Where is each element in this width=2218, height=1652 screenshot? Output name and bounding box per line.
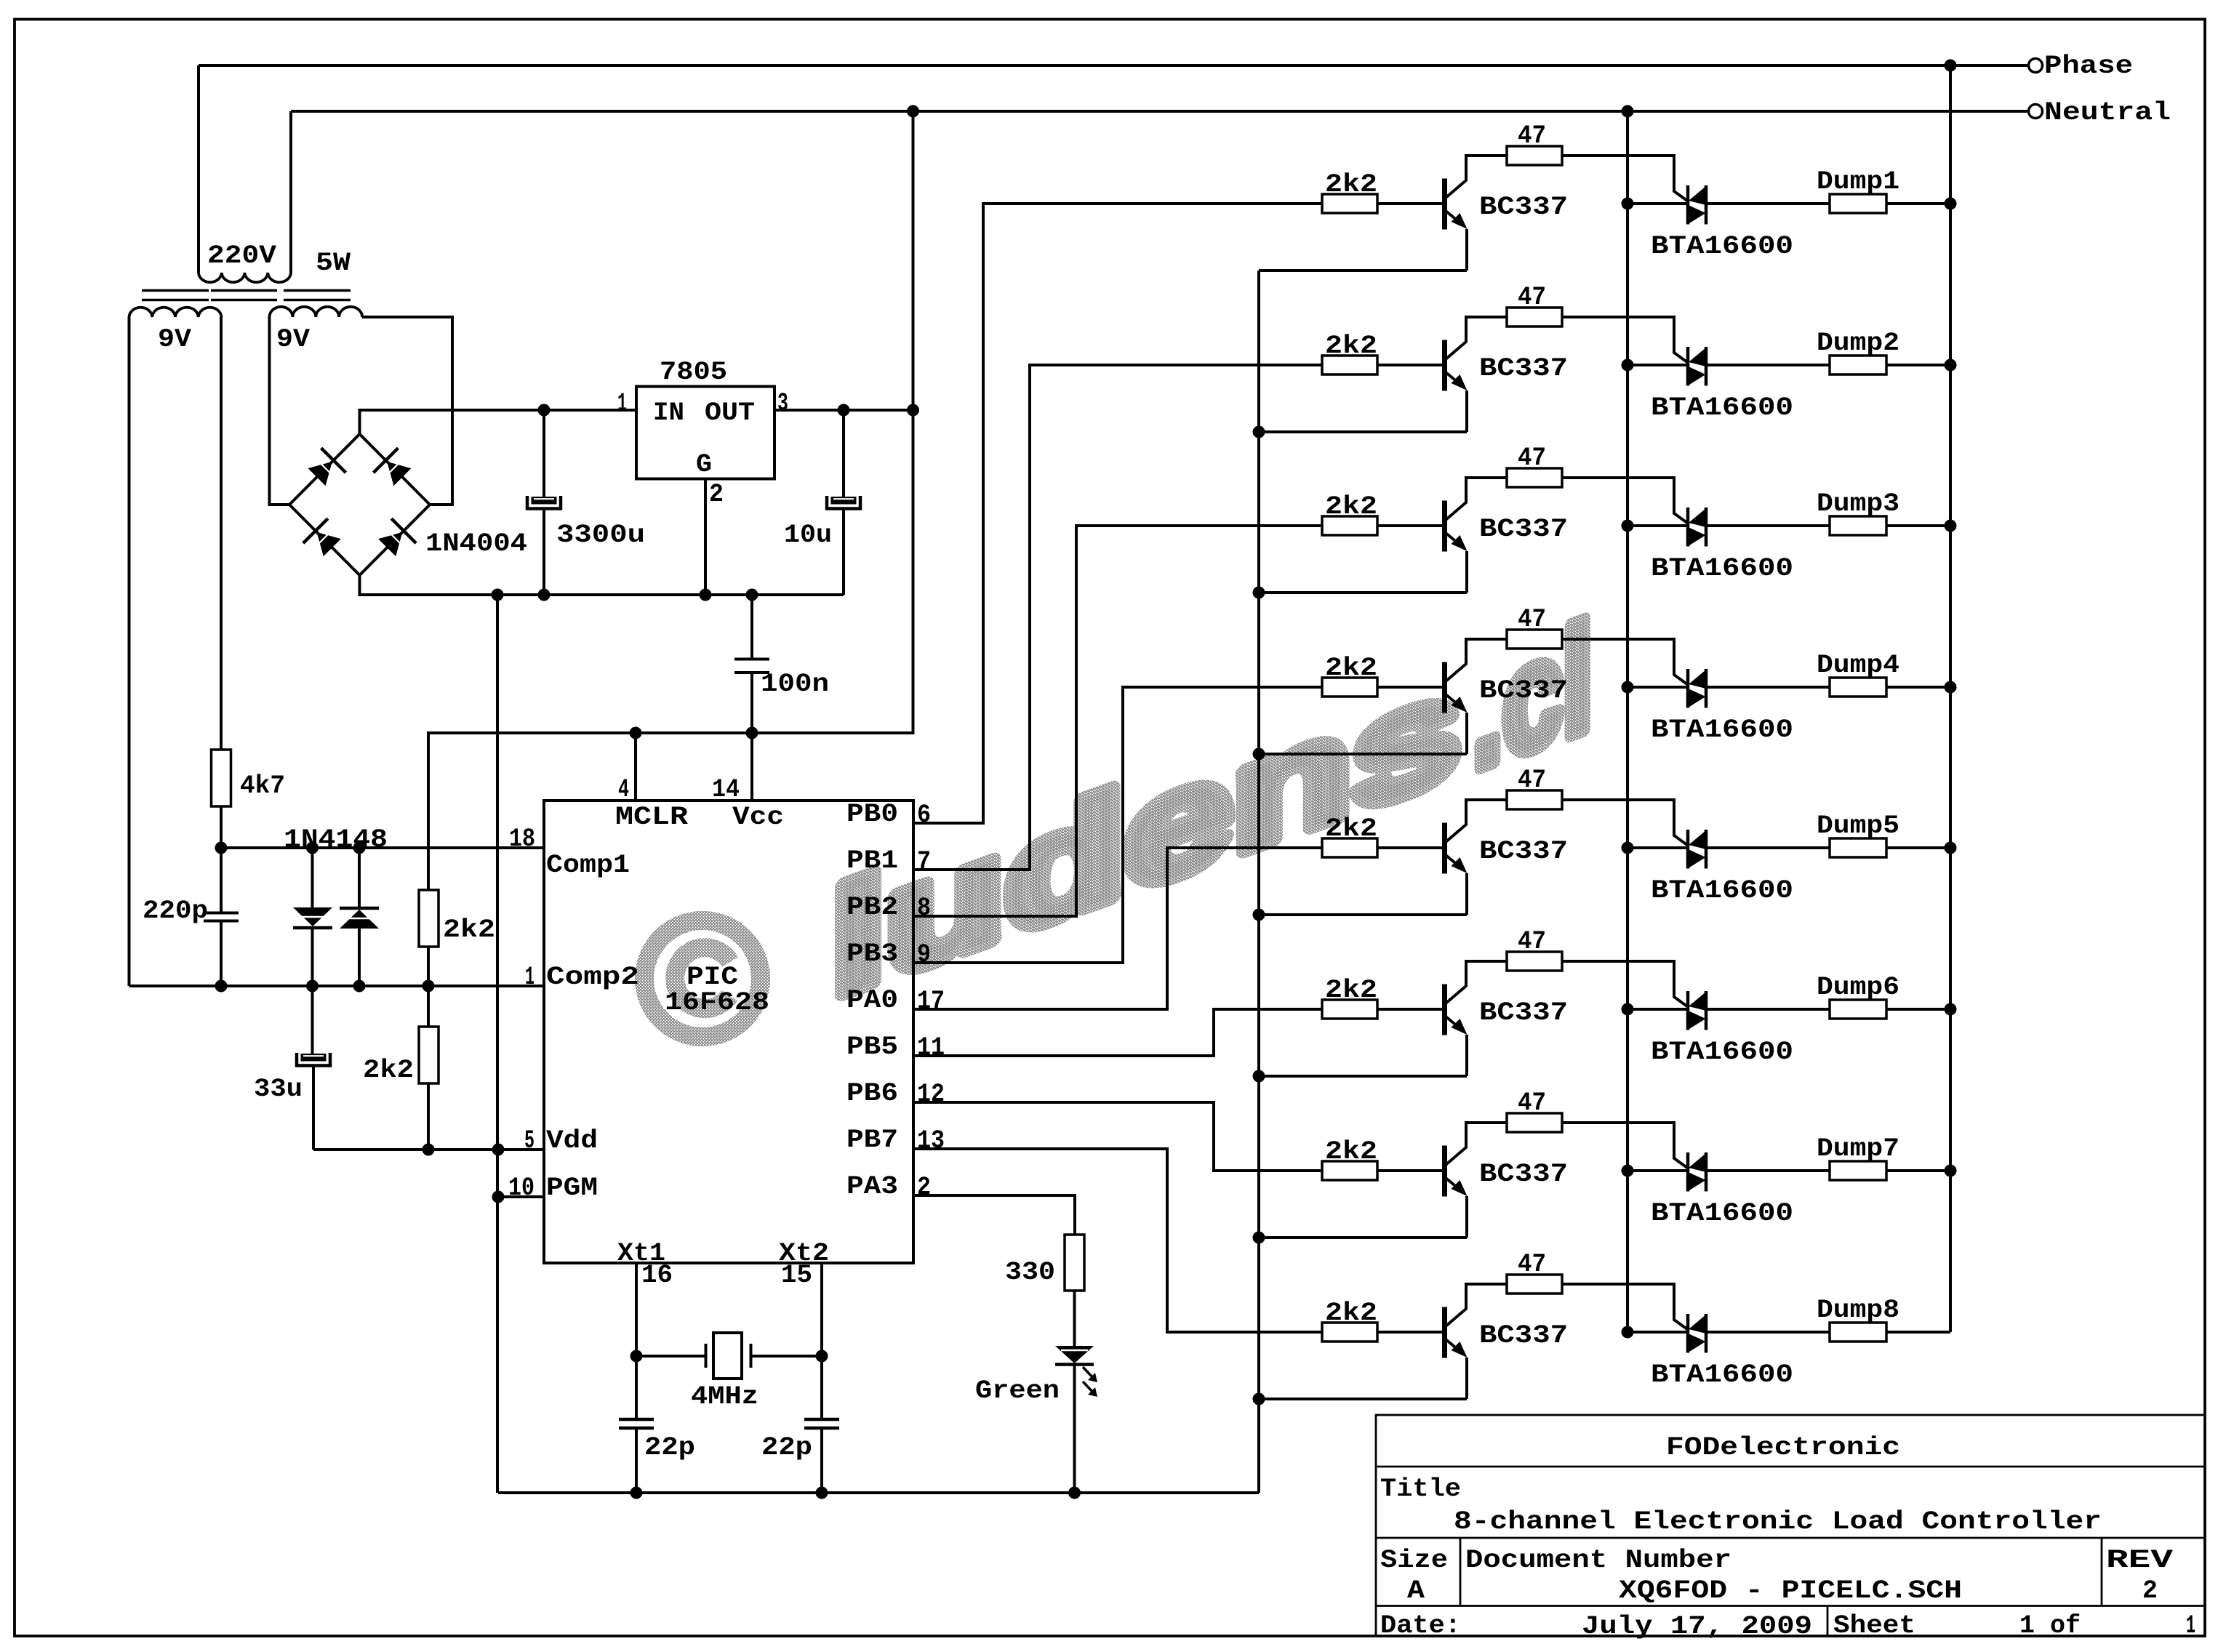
transistor Q1 BC337 — [1442, 179, 1447, 230]
resistor Dump7 ch7 — [1706, 1169, 1830, 1172]
resistor 47 ch3 — [1507, 468, 1562, 487]
triac TR5 BTA16600 — [1628, 846, 1688, 849]
diode 1N4148 right — [358, 848, 361, 908]
transistor Q6 BC337 — [1442, 985, 1447, 1035]
svg-text:2k2: 2k2 — [1325, 170, 1377, 199]
capacitor 33u — [311, 986, 314, 1054]
resistor 47 ch8 — [1507, 1275, 1562, 1294]
svg-text:47: 47 — [1518, 1250, 1546, 1279]
svg-text:14: 14 — [712, 775, 740, 804]
wire PB6 to channel 7 — [913, 1102, 1322, 1171]
triac TR6 BTA16600 — [1628, 1008, 1688, 1011]
resistor 2k2 ch6 — [1322, 1000, 1377, 1019]
wire emitter ground bus — [1257, 270, 1260, 1493]
svg-text:PB7: PB7 — [846, 1126, 898, 1155]
wire left 9V left terminal down to Comp2 line — [128, 317, 131, 986]
svg-text:PB5: PB5 — [846, 1032, 898, 1062]
svg-text:47: 47 — [1518, 766, 1546, 795]
wire gate ch7 — [1562, 1123, 1687, 1168]
resistor 2k2 ch4 — [1322, 678, 1377, 697]
transistor Q7 BC337 — [1442, 1146, 1447, 1197]
resistor 47 ch7 — [1507, 1113, 1562, 1132]
svg-text:XQ6FOD - PICELC.SCH: XQ6FOD - PICELC.SCH — [1619, 1576, 1962, 1605]
svg-text:PA3: PA3 — [846, 1172, 898, 1201]
wire PA0 to channel 5 — [913, 848, 1322, 1009]
wire gate ch4 — [1562, 639, 1687, 684]
svg-text:Sheet: Sheet — [1833, 1611, 1915, 1640]
wire gate ch6 — [1562, 961, 1687, 1006]
wire Xt1 pin16 riser — [635, 1263, 638, 1419]
resistor Dump8 ch8 — [1706, 1331, 1830, 1334]
wire 7805 OUT — [774, 409, 913, 412]
resistor Dump2 ch2 — [1706, 364, 1830, 366]
triac TR4 BTA16600 — [1628, 686, 1688, 689]
capacitor 22p right — [804, 1418, 839, 1422]
svg-text:BTA16600: BTA16600 — [1651, 554, 1793, 583]
svg-text:9V: 9V — [276, 325, 310, 354]
svg-text:OUT: OUT — [705, 398, 755, 428]
svg-text:3: 3 — [777, 389, 788, 418]
wire PB1 to channel 2 — [913, 365, 1322, 870]
svg-text:PB6: PB6 — [846, 1079, 898, 1108]
capacitor 220p — [220, 848, 223, 913]
resistor 330 — [1065, 1235, 1084, 1291]
wire Xt2 pin15 riser — [820, 1263, 823, 1419]
svg-text:FODelectronic: FODelectronic — [1666, 1433, 1900, 1462]
wire PB5 to channel 6 — [913, 1009, 1322, 1056]
wire PB3 to channel 4 — [913, 687, 1322, 963]
svg-text:PB2: PB2 — [846, 893, 898, 922]
wire PB0 to channel 1 — [913, 204, 1322, 823]
svg-text:33u: 33u — [254, 1075, 303, 1104]
svg-text:Neutral: Neutral — [2044, 98, 2171, 127]
resistor 2k2 lower — [427, 986, 430, 1027]
resistor 47 ch2 — [1507, 308, 1562, 326]
svg-text:47: 47 — [1518, 1088, 1546, 1118]
transformer secondary 9V right — [270, 307, 363, 317]
svg-text:BC337: BC337 — [1479, 676, 1568, 705]
svg-text:8-channel Electronic Load Cont: 8-channel Electronic Load Controller — [1454, 1507, 2102, 1536]
svg-text:2k2: 2k2 — [1325, 814, 1377, 843]
crystal 4MHz — [636, 1355, 706, 1358]
triac TR3 BTA16600 — [1628, 524, 1688, 527]
resistor Dump4 ch4 — [1706, 686, 1830, 689]
resistor 47 ch1 — [1507, 146, 1562, 165]
svg-text:16F628: 16F628 — [665, 988, 769, 1017]
svg-text:330: 330 — [1005, 1258, 1055, 1287]
svg-text:2k2: 2k2 — [1325, 1299, 1377, 1328]
svg-text:7: 7 — [917, 847, 931, 876]
svg-text:July 17, 2009: July 17, 2009 — [1582, 1612, 1812, 1641]
diode 1N4148 left — [311, 848, 314, 907]
svg-text:7805: 7805 — [660, 358, 727, 387]
node Neutral terminal — [291, 110, 2028, 113]
svg-text:18: 18 — [509, 825, 535, 854]
svg-text:IN: IN — [653, 398, 684, 428]
svg-text:Date:: Date: — [1380, 1611, 1461, 1640]
resistor 47 ch4 — [1507, 630, 1562, 649]
regulator 7805 — [636, 387, 774, 479]
svg-text:BTA16600: BTA16600 — [1651, 232, 1793, 261]
LED Green — [1055, 1346, 1094, 1363]
wire Vdd pin5 — [313, 1148, 544, 1151]
svg-text:PB1: PB1 — [846, 846, 898, 875]
svg-text:22p: 22p — [761, 1433, 812, 1462]
svg-text:9: 9 — [917, 940, 931, 969]
wire right 9V right terminal to bridge right corner — [362, 317, 452, 505]
svg-text:Dump3: Dump3 — [1817, 489, 1899, 518]
resistor Dump6 ch6 — [1706, 1008, 1830, 1011]
svg-text:REV: REV — [2106, 1546, 2173, 1575]
svg-text:2: 2 — [2142, 1576, 2158, 1605]
svg-text:220p: 220p — [143, 897, 208, 926]
wire DC ground to PGM and bottom rail — [496, 595, 499, 1493]
svg-text:15: 15 — [781, 1261, 812, 1290]
svg-text:PA0: PA0 — [846, 986, 898, 1015]
svg-text:Dump8: Dump8 — [1817, 1296, 1899, 1325]
svg-text:BC337: BC337 — [1479, 193, 1568, 222]
svg-text:13: 13 — [917, 1126, 945, 1155]
svg-text:Size: Size — [1380, 1546, 1448, 1575]
svg-text:2k2: 2k2 — [1325, 976, 1377, 1005]
transistor Q3 BC337 — [1442, 501, 1447, 552]
svg-text:17: 17 — [917, 987, 945, 1016]
svg-text:22p: 22p — [644, 1433, 695, 1462]
wire bridge DC+ to 7805 IN — [360, 410, 637, 434]
triac TR8 BTA16600 — [1628, 1331, 1688, 1334]
resistor 2k2 ch5 — [1322, 838, 1377, 857]
svg-text:1: 1 — [617, 389, 627, 418]
transformer secondary 9V left — [129, 308, 222, 317]
wire triac A2 rail — [1626, 111, 1629, 1332]
svg-text:Title: Title — [1380, 1475, 1461, 1504]
svg-text:10u: 10u — [784, 521, 832, 550]
svg-text:9V: 9V — [158, 325, 191, 354]
svg-text:PGM: PGM — [546, 1174, 598, 1203]
svg-text:1: 1 — [2186, 1611, 2195, 1640]
wire gate ch3 — [1562, 478, 1687, 523]
svg-text:2k2: 2k2 — [1325, 332, 1377, 361]
resistor 2k2 ch1 — [1322, 194, 1377, 213]
svg-text:PB3: PB3 — [846, 939, 898, 969]
svg-text:220V: 220V — [207, 241, 276, 270]
transistor Q8 BC337 — [1442, 1307, 1447, 1358]
wire left 9V right terminal down to 4k7 — [220, 317, 223, 750]
svg-text:1N4148: 1N4148 — [284, 825, 388, 854]
node Phase terminal — [199, 64, 2028, 67]
svg-text:Green: Green — [975, 1376, 1060, 1406]
transistor Q4 BC337 — [1442, 662, 1447, 713]
capacitor 3300u — [543, 410, 545, 497]
wire Comp2 pin1 — [129, 985, 545, 987]
wire PB7 to channel 8 — [913, 1149, 1322, 1332]
wire gate ch8 — [1562, 1284, 1687, 1329]
svg-text:47: 47 — [1518, 927, 1546, 956]
wire Neutral to +5 rail riser — [428, 111, 913, 890]
svg-text:Dump2: Dump2 — [1817, 329, 1899, 358]
svg-text:11: 11 — [917, 1033, 945, 1062]
svg-text:A: A — [1407, 1576, 1425, 1605]
svg-text:47: 47 — [1518, 605, 1546, 634]
svg-text:10: 10 — [508, 1174, 535, 1203]
svg-text:PIC: PIC — [686, 963, 738, 992]
svg-text:Comp1: Comp1 — [546, 851, 630, 880]
svg-text:6: 6 — [917, 801, 931, 830]
svg-text:BTA16600: BTA16600 — [1651, 1360, 1793, 1390]
svg-text:BC337: BC337 — [1479, 1160, 1568, 1189]
capacitor 22p left — [619, 1418, 654, 1422]
triac TR1 BTA16600 — [1628, 202, 1688, 205]
resistor 2k2 ch3 — [1322, 516, 1377, 535]
svg-text:5: 5 — [524, 1126, 535, 1155]
svg-text:BTA16600: BTA16600 — [1651, 876, 1793, 905]
svg-text:4: 4 — [618, 775, 629, 804]
svg-text:BC337: BC337 — [1479, 515, 1568, 544]
diode bridge bottom-right — [378, 532, 402, 556]
title block — [1376, 1415, 2205, 1636]
diode bridge top-left — [308, 462, 332, 486]
svg-text:Phase: Phase — [2044, 52, 2133, 81]
wire PA3 pin2 to LED — [913, 1195, 1075, 1235]
svg-text:4MHz: 4MHz — [691, 1382, 758, 1411]
transformer core — [142, 289, 209, 292]
resistor 47 ch5 — [1507, 790, 1562, 809]
svg-text:Dump4: Dump4 — [1817, 651, 1899, 680]
resistor Dump1 ch1 — [1706, 202, 1830, 205]
svg-text:BC337: BC337 — [1479, 1321, 1568, 1350]
svg-text:8: 8 — [917, 894, 931, 923]
svg-text:BTA16600: BTA16600 — [1651, 1038, 1793, 1067]
capacitor 10u — [842, 410, 845, 497]
svg-text:1N4004: 1N4004 — [425, 529, 527, 558]
transformer T1 primary — [197, 65, 200, 273]
svg-text:Vdd: Vdd — [546, 1126, 598, 1155]
wire right 9V left terminal to bridge left corner — [270, 317, 290, 505]
svg-text:BTA16600: BTA16600 — [1651, 1199, 1793, 1228]
wire gate ch5 — [1562, 800, 1687, 845]
svg-text:Vcc: Vcc — [732, 803, 784, 832]
svg-text:2k2: 2k2 — [363, 1056, 414, 1085]
svg-text:1 of: 1 of — [2019, 1611, 2081, 1640]
triac TR7 BTA16600 — [1628, 1169, 1688, 1172]
resistor 47 ch6 — [1507, 952, 1562, 971]
svg-text:Dump6: Dump6 — [1817, 973, 1899, 1002]
wire Comp1 pin18 — [221, 846, 544, 849]
transistor Q5 BC337 — [1442, 823, 1447, 874]
svg-text:BC337: BC337 — [1479, 998, 1568, 1027]
svg-text:PB0: PB0 — [846, 800, 898, 829]
capacitor 100n — [750, 595, 753, 658]
svg-text:4k7: 4k7 — [240, 771, 285, 801]
wire gate ch1 — [1562, 156, 1687, 201]
svg-text:Comp2: Comp2 — [546, 963, 639, 992]
svg-text:5W: 5W — [316, 249, 351, 278]
bridge rectifier 1N4004 — [289, 434, 430, 575]
svg-text:Dump1: Dump1 — [1817, 167, 1899, 196]
wire bottom ground rail — [498, 1491, 1259, 1494]
svg-text:MCLR: MCLR — [615, 803, 688, 832]
svg-text:2: 2 — [917, 1173, 931, 1202]
resistor Dump5 ch5 — [1706, 846, 1830, 849]
resistor 2k2 ch8 — [1322, 1323, 1377, 1342]
svg-text:BC337: BC337 — [1479, 354, 1568, 383]
svg-text:Dump7: Dump7 — [1817, 1134, 1899, 1163]
svg-text:47: 47 — [1518, 283, 1546, 312]
svg-text:47: 47 — [1518, 444, 1546, 473]
watermark ludens.cl — [644, 921, 761, 1037]
svg-text:2k2: 2k2 — [1325, 1137, 1377, 1166]
wire riser to Vcc pin14 — [750, 733, 753, 801]
resistor Dump3 ch3 — [1706, 524, 1830, 527]
diode bridge top-right — [387, 462, 411, 486]
svg-text:2k2: 2k2 — [443, 915, 495, 945]
op-amp U1 PIC 16F628 — [544, 801, 913, 1263]
svg-text:3300u: 3300u — [556, 521, 645, 550]
svg-text:12: 12 — [917, 1080, 945, 1109]
svg-text:1: 1 — [525, 963, 535, 992]
svg-text:47: 47 — [1518, 121, 1546, 151]
svg-text:BTA16600: BTA16600 — [1651, 715, 1793, 745]
resistor 2k2 ch7 — [1322, 1161, 1377, 1180]
wire PSU ground rail — [360, 575, 844, 595]
svg-text:BTA16600: BTA16600 — [1651, 393, 1793, 422]
svg-text:G: G — [696, 450, 712, 479]
svg-text:100n: 100n — [761, 670, 829, 699]
svg-text:2k2: 2k2 — [1325, 654, 1377, 683]
svg-text:2k2: 2k2 — [1325, 492, 1377, 521]
resistor 4k7 — [212, 750, 231, 806]
wire riser to MCLR pin4 — [634, 733, 637, 801]
resistor 2k2 ch2 — [1322, 356, 1377, 374]
svg-text:BC337: BC337 — [1479, 837, 1568, 866]
transistor Q2 BC337 — [1442, 340, 1447, 391]
svg-text:Document Number: Document Number — [1465, 1546, 1731, 1575]
wire gate ch2 — [1562, 317, 1687, 362]
triac TR2 BTA16600 — [1628, 364, 1688, 366]
svg-text:2: 2 — [709, 480, 724, 509]
svg-text:Dump5: Dump5 — [1817, 811, 1899, 841]
wire Phase rail — [1949, 65, 1952, 1332]
wire PB2 to channel 3 — [913, 526, 1322, 916]
wire PGM pin10 — [498, 1195, 544, 1198]
diode bridge bottom-left — [317, 532, 341, 556]
resistor 2k2 upper — [419, 890, 439, 947]
wire 7805 G to ground rail — [704, 479, 707, 596]
svg-text:16: 16 — [641, 1261, 673, 1290]
